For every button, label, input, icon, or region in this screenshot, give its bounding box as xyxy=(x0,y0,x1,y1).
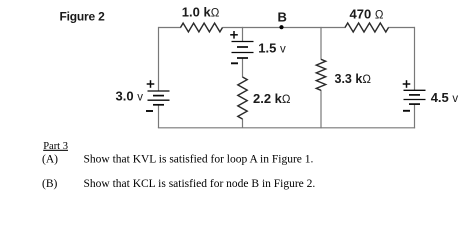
wire right vertical lower (battery B3 - to bottom rail) xyxy=(414,104,416,128)
wire top-left horizontal segment xyxy=(159,27,182,29)
resistor R3 2.2 kOhm (vertical zigzag) xyxy=(238,77,247,119)
node B junction dot xyxy=(279,25,283,29)
resistor R1 1.0 kOhm (horizontal zigzag) xyxy=(181,23,223,32)
battery B3 plus sign xyxy=(403,80,411,88)
wire top middle segment (R1 to 470 ohm) xyxy=(223,27,346,29)
svg-text:3.0 v: 3.0 v xyxy=(116,89,144,104)
svg-text:3.3 kΩ: 3.3 kΩ xyxy=(335,72,372,86)
battery B3 minus sign xyxy=(403,110,410,112)
svg-text:Show that KCL is satisfied for: Show that KCL is satisfied for node B in… xyxy=(84,178,316,190)
resistor R4 3.3 kOhm (vertical zigzag) xyxy=(316,59,325,90)
resistor R2 470 Ohm (horizontal zigzag) xyxy=(345,23,389,32)
svg-text:1.0 kΩ: 1.0 kΩ xyxy=(182,4,220,19)
svg-text:Figure 2: Figure 2 xyxy=(60,10,106,24)
svg-text:Show that KVL is satisfied for: Show that KVL is satisfied for loop A in… xyxy=(84,154,314,166)
wire left vertical upper (to battery B1 +) xyxy=(158,27,160,91)
wire 3.3k branch upper xyxy=(320,27,322,60)
svg-text:1.5 v: 1.5 v xyxy=(258,40,286,55)
wire middle branch lower (R3 to bottom rail) xyxy=(242,119,244,128)
wire bottom rail xyxy=(158,127,415,129)
battery B2 1.5 V (middle source) xyxy=(232,42,254,59)
wire 3.3k branch lower xyxy=(320,90,322,128)
svg-text:B: B xyxy=(278,10,287,25)
wire middle branch upper (node to battery B2 +) xyxy=(242,27,244,42)
svg-text:4.5 v: 4.5 v xyxy=(431,90,459,105)
wire left vertical lower (battery B1 - to bottom rail) xyxy=(158,105,160,128)
svg-text:470 Ω: 470 Ω xyxy=(350,7,384,22)
svg-text:(A): (A) xyxy=(42,154,58,166)
battery B2 minus sign xyxy=(231,62,238,64)
svg-text:2.2 kΩ: 2.2 kΩ xyxy=(253,91,291,106)
svg-text:(B): (B) xyxy=(42,178,58,190)
svg-text:Part 3: Part 3 xyxy=(43,141,68,152)
battery B1 3.0 V (left source) xyxy=(148,91,170,105)
battery B1 minus sign xyxy=(146,110,153,112)
wire right vertical upper (to battery B3 +) xyxy=(414,27,416,90)
wire top-right segment xyxy=(388,27,415,29)
battery B2 plus sign xyxy=(230,31,238,39)
wire middle branch (battery B2 - to resistor R3) xyxy=(242,58,244,77)
battery B1 plus sign xyxy=(147,80,155,88)
battery B3 4.5 V (right source) xyxy=(404,90,426,104)
